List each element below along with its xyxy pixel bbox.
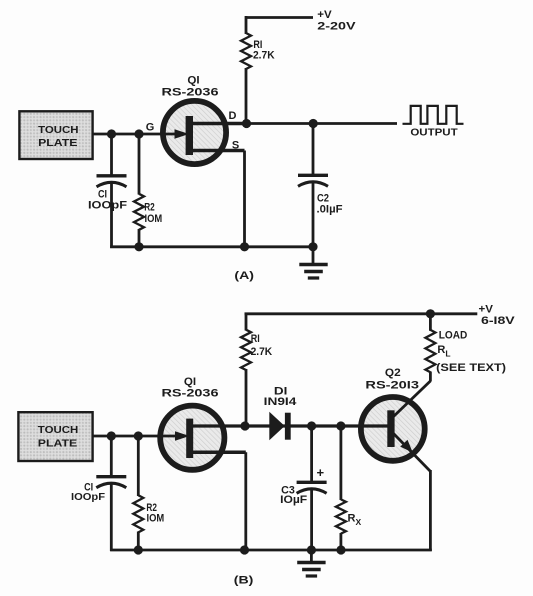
svg-text:Q2: Q2 — [385, 367, 401, 379]
svg-text:IOOpF: IOOpF — [88, 200, 127, 212]
svg-text:LOAD: LOAD — [439, 330, 468, 342]
svg-text:2.7K: 2.7K — [253, 50, 275, 62]
svg-text:2.7K: 2.7K — [251, 346, 273, 358]
svg-text:RS-2036: RS-2036 — [162, 87, 219, 99]
svg-text:D: D — [229, 110, 237, 122]
svg-text:RS-20I3: RS-20I3 — [365, 379, 419, 391]
svg-text:QI: QI — [187, 74, 199, 86]
svg-text:+V: +V — [317, 9, 332, 21]
svg-text:TOUCH: TOUCH — [38, 424, 78, 436]
svg-text:PLATE: PLATE — [38, 137, 77, 149]
svg-text:S: S — [232, 140, 239, 152]
svg-text:6-I8V: 6-I8V — [481, 315, 516, 327]
svg-text:(SEE TEXT): (SEE TEXT) — [436, 362, 506, 374]
svg-text:OUTPUT: OUTPUT — [410, 126, 458, 138]
svg-text:+: + — [317, 465, 325, 480]
svg-text:(A): (A) — [234, 270, 254, 282]
svg-text:PLATE: PLATE — [38, 437, 77, 449]
svg-text:IN9I4: IN9I4 — [264, 396, 298, 408]
svg-text:(B): (B) — [234, 575, 254, 587]
svg-text:QI: QI — [184, 376, 196, 388]
svg-text:IOM: IOM — [145, 213, 163, 225]
svg-text:IOOpF: IOOpF — [71, 491, 106, 503]
svg-text:IOµF: IOµF — [280, 494, 307, 506]
svg-text:RS-2036: RS-2036 — [162, 387, 219, 399]
svg-text:G: G — [146, 122, 155, 134]
svg-text:R2: R2 — [144, 202, 155, 214]
svg-text:.0IµF: .0IµF — [317, 203, 343, 215]
svg-text:TOUCH: TOUCH — [38, 124, 78, 136]
svg-text:CI: CI — [98, 188, 107, 200]
svg-text:IOM: IOM — [147, 512, 165, 524]
svg-text:+V: +V — [479, 304, 494, 316]
svg-text:2-20V: 2-20V — [317, 21, 356, 33]
svg-text:RI: RI — [251, 333, 260, 345]
